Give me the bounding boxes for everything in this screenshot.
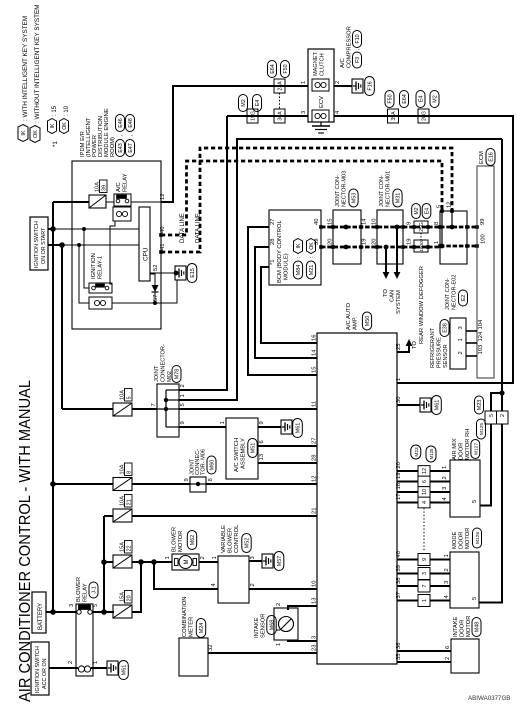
connector 36A (E64/F50) bbox=[274, 109, 285, 123]
case ground (compressor) bbox=[312, 122, 330, 133]
svg-text:6: 6 bbox=[259, 440, 265, 443]
svg-text:35: 35 bbox=[396, 654, 402, 660]
wire: fuse 39 to A/C relay contact bbox=[106, 201, 114, 203]
svg-text:40: 40 bbox=[314, 219, 320, 225]
wire: intake sensor pin 2 to amp pin 13 bbox=[288, 606, 317, 610]
wire: A/C relay coil to ignition relay contact bbox=[110, 221, 115, 284]
connector 19G (M2/E4) bbox=[239, 95, 262, 124]
svg-text:16: 16 bbox=[312, 335, 318, 341]
svg-text:: WITH INTELLIGENT KEY SYSTEM: : WITH INTELLIGENT KEY SYSTEM bbox=[22, 16, 29, 121]
svg-text:12: 12 bbox=[422, 468, 428, 474]
svg-text:PRESSURE: PRESSURE bbox=[437, 337, 443, 368]
wire: ign2 to relay-1 coil and CPU bbox=[62, 243, 139, 303]
svg-text:CPU: CPU bbox=[143, 247, 150, 261]
wire: common to connector cell 2 bbox=[501, 393, 503, 411]
svg-text:3: 3 bbox=[442, 487, 448, 490]
connector 100G bbox=[414, 240, 428, 252]
legend note *1: IK=15 OK=10 bbox=[48, 105, 71, 147]
junction ign2 bbox=[59, 242, 65, 248]
label DATA LINE 1 bbox=[180, 213, 186, 243]
svg-text:27: 27 bbox=[270, 219, 276, 225]
wire: amp pin 25 to rear window defogger bbox=[397, 339, 412, 352]
wire: fused bus px104 bbox=[103, 516, 105, 612]
svg-text:M53: M53 bbox=[352, 193, 358, 204]
svg-text:MODE: MODE bbox=[452, 531, 458, 549]
wire: ign2 vertical px62 to fuse 5 bbox=[62, 245, 113, 409]
svg-text:M24: M24 bbox=[199, 623, 205, 634]
svg-text:CAN: CAN bbox=[390, 290, 396, 302]
legend: OK = without intelligent key system bbox=[30, 4, 41, 142]
junction battery bus / relay line bbox=[50, 609, 56, 615]
svg-text:30: 30 bbox=[396, 397, 402, 403]
svg-text:2: 2 bbox=[180, 384, 186, 387]
wire: sensor pin 3 to ECM 104 bbox=[466, 330, 477, 332]
wire: amp 35 to intake 2 bbox=[397, 661, 451, 663]
IPDM pin numbers bbox=[153, 194, 166, 301]
refrigerant pressure sensor E38 bbox=[430, 318, 466, 369]
wire: CAN data line from IPDM pin 40 bbox=[161, 161, 442, 235]
svg-text:NECTOR-M01: NECTOR-M01 bbox=[386, 171, 392, 207]
svg-text:COMBINATION: COMBINATION bbox=[182, 597, 188, 637]
svg-text:2: 2 bbox=[442, 476, 448, 479]
svg-text:9: 9 bbox=[180, 421, 186, 424]
svg-text:36: 36 bbox=[396, 643, 402, 649]
svg-text:19G: 19G bbox=[251, 111, 257, 121]
combination meter M24 bbox=[179, 597, 214, 676]
svg-text:23: 23 bbox=[312, 645, 318, 651]
wire: ignition ON/START feed 1 to bus bbox=[48, 228, 53, 230]
wire: CAN data line from IPDM pin 41 bbox=[161, 148, 452, 252]
svg-text:M48: M48 bbox=[475, 622, 481, 633]
svg-text:100G: 100G bbox=[419, 240, 424, 252]
svg-text:A/C: A/C bbox=[116, 182, 122, 192]
wire: CAN branch arrows to CAN system bbox=[383, 227, 401, 279]
svg-text:103: 103 bbox=[478, 345, 484, 355]
svg-text:F50: F50 bbox=[388, 94, 394, 103]
svg-text:3: 3 bbox=[301, 111, 307, 114]
wire: intake sensor pin 1 to amp pin 3 bbox=[288, 640, 317, 641]
ground E15 bbox=[161, 264, 197, 304]
wire: M78 pin 9 to A/C switch pin 1 bbox=[179, 426, 226, 428]
svg-text:9: 9 bbox=[407, 222, 413, 225]
svg-text:E47: E47 bbox=[128, 143, 134, 153]
svg-text:M61: M61 bbox=[122, 665, 128, 676]
svg-text:20: 20 bbox=[396, 462, 402, 468]
svg-text:6: 6 bbox=[422, 480, 428, 483]
svg-text:M57: M57 bbox=[277, 556, 283, 567]
svg-text:6: 6 bbox=[445, 646, 451, 649]
wire: A/C switch pin 6 to amp pin 27 bbox=[258, 445, 317, 447]
svg-text:99: 99 bbox=[480, 219, 486, 225]
junction px104/fuse22 bbox=[101, 559, 107, 565]
svg-text:IGNITION SWITCH: IGNITION SWITCH bbox=[34, 221, 40, 268]
CPU box bbox=[139, 207, 150, 281]
diode (IPDM) bbox=[150, 274, 159, 303]
svg-text:VARIABLE: VARIABLE bbox=[221, 525, 227, 553]
joint connector M01 (M31) bbox=[372, 171, 413, 264]
svg-text:100: 100 bbox=[481, 234, 487, 244]
wire: amp pin 30 to ground bbox=[397, 404, 420, 406]
junction bus/fuse8 bbox=[50, 481, 56, 487]
svg-text:2: 2 bbox=[500, 414, 506, 417]
svg-text:E15: E15 bbox=[190, 268, 196, 278]
svg-text:CLUTCH: CLUTCH bbox=[320, 53, 326, 76]
svg-text:36A: 36A bbox=[278, 111, 284, 121]
svg-text:1: 1 bbox=[301, 81, 307, 84]
svg-text:5: 5 bbox=[472, 500, 478, 503]
junction ign1 on bus bbox=[50, 226, 56, 232]
svg-text:M126: M126 bbox=[475, 532, 481, 544]
svg-text:M50: M50 bbox=[365, 316, 371, 327]
legend: IK = with intelligent key system bbox=[18, 16, 29, 142]
wire: bus top to IPDM fuse 39 bbox=[53, 201, 89, 203]
svg-text:SYSTEM: SYSTEM bbox=[396, 290, 402, 314]
svg-text:40: 40 bbox=[160, 227, 166, 233]
svg-text:5: 5 bbox=[472, 597, 478, 600]
connector link dotted 23A-36A bbox=[279, 93, 281, 109]
svg-text:TO: TO bbox=[412, 341, 418, 349]
svg-text:1: 1 bbox=[458, 338, 464, 341]
svg-text:3: 3 bbox=[444, 581, 450, 584]
svg-text:5: 5 bbox=[126, 396, 132, 399]
svg-text:INTAKE: INTAKE bbox=[453, 616, 459, 637]
wire: battery bus vertical px53 bbox=[52, 202, 54, 612]
svg-text:ECV: ECV bbox=[319, 96, 325, 108]
svg-text:124: 124 bbox=[478, 331, 484, 341]
svg-text:12: 12 bbox=[447, 202, 453, 208]
svg-text:1: 1 bbox=[444, 554, 450, 557]
ignition relay-1 bbox=[89, 253, 112, 309]
mode door motor M126 bbox=[444, 528, 482, 608]
wire: ign1 to relay-1 contact and CPU bbox=[53, 227, 139, 288]
svg-text:1: 1 bbox=[276, 643, 282, 646]
svg-text:2: 2 bbox=[458, 351, 464, 354]
svg-text:INTAKE: INTAKE bbox=[254, 617, 260, 638]
svg-text:E16: E16 bbox=[489, 152, 495, 162]
svg-text:M62: M62 bbox=[190, 535, 196, 546]
svg-text:39: 39 bbox=[102, 185, 108, 191]
wire: relay-1 coil to pin 57 node bbox=[112, 302, 161, 304]
connector link dotted cells bbox=[423, 508, 425, 552]
svg-text:ON OR START: ON OR START bbox=[41, 227, 47, 264]
ignition switch ACC or ON bbox=[31, 642, 49, 695]
wire: amp 18 to air mix 3 bbox=[397, 491, 450, 493]
svg-text:SENSOR: SENSOR bbox=[443, 344, 449, 368]
title: AIR CONDITIONER CONTROL - WITH MANUAL bbox=[17, 380, 34, 702]
svg-text:15: 15 bbox=[312, 367, 318, 373]
air mix door motor RH M127 bbox=[442, 429, 480, 517]
wire: cell 2 to mode door motor pin 5 bbox=[479, 424, 502, 603]
wire: door motor feed drop px502 bbox=[501, 139, 503, 393]
svg-text:8: 8 bbox=[434, 222, 440, 225]
variable blower control M52 bbox=[211, 524, 256, 603]
svg-text:BLOWER: BLOWER bbox=[172, 527, 178, 552]
wire: fuse 21 to amp pin 21 bbox=[132, 515, 317, 517]
svg-text:M60: M60 bbox=[210, 460, 216, 471]
svg-text:3: 3 bbox=[422, 572, 428, 575]
svg-text:8: 8 bbox=[126, 471, 132, 474]
wire: blower relay out to fuse 20 bbox=[93, 611, 114, 613]
svg-text:5: 5 bbox=[180, 403, 186, 406]
junction fuse20 riser bbox=[138, 559, 144, 565]
label TO REAR WINDOW DEFOGGER bbox=[412, 266, 425, 349]
wire: fuse 22 to blower motor bbox=[132, 561, 172, 563]
svg-text:NECTOR-M03: NECTOR-M03 bbox=[342, 171, 348, 207]
svg-text:25G: 25G bbox=[419, 222, 425, 232]
connector cells M23/M125 (air mix) bbox=[411, 445, 436, 508]
svg-text:DATA LINE: DATA LINE bbox=[196, 213, 202, 243]
svg-text:39: 39 bbox=[396, 565, 402, 571]
svg-text:1: 1 bbox=[422, 599, 428, 602]
svg-text:MOTOR: MOTOR bbox=[465, 528, 471, 549]
svg-text:5: 5 bbox=[437, 205, 443, 208]
svg-text:RELAY: RELAY bbox=[123, 173, 129, 192]
svg-text:M61: M61 bbox=[435, 400, 441, 411]
connector cells (mode) bbox=[418, 554, 430, 607]
svg-text:1: 1 bbox=[442, 466, 448, 469]
wire: CAN BCM 39 to E02 pin 1 bbox=[321, 246, 440, 249]
terminal nubs on CAN chain bbox=[159, 209, 479, 254]
svg-text:METER: METER bbox=[189, 617, 195, 637]
svg-text:JOINT CON-: JOINT CON- bbox=[445, 278, 451, 310]
svg-text:35A: 35A bbox=[391, 111, 397, 121]
svg-text:1: 1 bbox=[434, 241, 440, 244]
svg-text:7: 7 bbox=[151, 403, 157, 406]
wire: amp 39 to mode 2 bbox=[397, 573, 450, 575]
svg-text:M127: M127 bbox=[473, 443, 479, 455]
svg-text:2: 2 bbox=[250, 583, 256, 586]
wire: CAN BCM 40 to E02 pin 8 bbox=[321, 226, 440, 229]
ground M57 bbox=[262, 552, 284, 571]
svg-text:28: 28 bbox=[270, 239, 276, 245]
svg-text:22: 22 bbox=[126, 545, 132, 551]
svg-text:E64: E64 bbox=[270, 64, 276, 74]
svg-text:E46: E46 bbox=[118, 118, 124, 128]
svg-text:18: 18 bbox=[396, 483, 402, 489]
svg-text:E4: E4 bbox=[425, 208, 431, 214]
junction door motor common bbox=[499, 390, 504, 395]
svg-text:F50: F50 bbox=[283, 64, 289, 73]
svg-text:M84: M84 bbox=[296, 265, 302, 276]
svg-text:1: 1 bbox=[93, 661, 99, 664]
svg-text:A/C SWITCH: A/C SWITCH bbox=[234, 438, 240, 472]
svg-text:IK: IK bbox=[50, 123, 56, 128]
svg-text:9: 9 bbox=[259, 421, 265, 424]
intake door motor M48 bbox=[445, 616, 481, 673]
connector 35A (F50/E64) bbox=[385, 91, 409, 124]
svg-text:20: 20 bbox=[126, 595, 132, 601]
wire: amp 20 to air mix 1 bbox=[397, 470, 450, 472]
wire: fuse 5 to M78 pin 7 bbox=[132, 408, 157, 410]
svg-text:2: 2 bbox=[200, 556, 206, 559]
svg-text:E64: E64 bbox=[402, 94, 408, 104]
svg-text:: 15: : 15 bbox=[52, 105, 58, 116]
svg-text:41: 41 bbox=[160, 244, 166, 250]
A/C relay bbox=[113, 173, 131, 221]
svg-text:38: 38 bbox=[396, 578, 402, 584]
svg-text:RELAY: RELAY bbox=[83, 583, 89, 602]
svg-text:: WITHOUT INTELLIGENT KEY SYST: : WITHOUT INTELLIGENT KEY SYSTEM bbox=[34, 4, 41, 123]
intake sensor M68 bbox=[254, 603, 298, 646]
wire: amp 40 to mode 1 bbox=[397, 559, 450, 561]
svg-text:104: 104 bbox=[478, 319, 484, 329]
joint connector M06 (M60) bbox=[184, 449, 216, 492]
svg-text:M23: M23 bbox=[414, 447, 420, 457]
svg-text:F10: F10 bbox=[355, 34, 361, 43]
svg-text:M2: M2 bbox=[433, 95, 439, 103]
svg-text:MOTOR: MOTOR bbox=[466, 616, 472, 637]
svg-text:E4: E4 bbox=[255, 100, 261, 107]
wire: ignition ON/START feed 2 bbox=[48, 244, 62, 246]
svg-text:M125: M125 bbox=[479, 423, 485, 435]
wire: bus to fuse 8 bbox=[53, 483, 113, 485]
wire: ACC to blower relay coil bbox=[49, 667, 78, 669]
wire: VBC pin 3 to ground M57 bbox=[249, 560, 262, 562]
svg-text:M51: M51 bbox=[251, 443, 257, 454]
wire: IPDM pin 12 to magnet clutch pin 1 bbox=[161, 86, 308, 202]
A/C switch assembly M51 bbox=[220, 418, 265, 479]
joint connector M03 (M53) bbox=[328, 171, 368, 264]
joint connector M02 (M78) bbox=[151, 344, 186, 437]
svg-text:2: 2 bbox=[276, 603, 282, 606]
connector link dotted 25G-100G bbox=[420, 233, 422, 240]
svg-text:57: 57 bbox=[153, 295, 159, 301]
svg-text:19: 19 bbox=[362, 239, 368, 245]
svg-text:COMPRESSOR: COMPRESSOR bbox=[347, 26, 353, 68]
svg-text:TOR- M06: TOR- M06 bbox=[201, 449, 207, 475]
wire: A/C switch pin 9 to ground bbox=[258, 426, 281, 428]
svg-text:OK: OK bbox=[62, 122, 68, 130]
svg-text:11: 11 bbox=[312, 401, 318, 407]
svg-text:ABIWA0377GB: ABIWA0377GB bbox=[468, 695, 510, 702]
svg-text:25: 25 bbox=[396, 344, 402, 350]
wire: sensor pin 2 to ECM 103 bbox=[466, 355, 477, 357]
svg-text:M31: M31 bbox=[396, 193, 402, 204]
wire: magnet clutch pin 2 to F16 bbox=[334, 85, 352, 87]
blower relay J-1 bbox=[68, 577, 99, 676]
wire: common to connector cell 5 bbox=[491, 393, 502, 411]
wire: BCM pin 28 to amp pin 14 bbox=[255, 247, 317, 358]
svg-text:IK: IK bbox=[21, 130, 27, 136]
wire: amp 37 to mode 4 bbox=[397, 600, 450, 602]
svg-text:REFRIGERANT: REFRIGERANT bbox=[430, 327, 436, 368]
svg-text:ACC OR ON: ACC OR ON bbox=[42, 658, 48, 689]
svg-text:23A: 23A bbox=[278, 81, 284, 91]
svg-text:M2: M2 bbox=[241, 99, 247, 107]
svg-text:DATA LINE: DATA LINE bbox=[180, 213, 186, 243]
wire: amp 19 to air mix 2 bbox=[397, 481, 450, 483]
svg-text:2: 2 bbox=[444, 568, 450, 571]
connector 20G (E4/M2) bbox=[416, 91, 439, 124]
fuse 10A 5 bbox=[113, 389, 132, 417]
wire: riser px227 to ECV pin 3 bbox=[227, 115, 308, 117]
svg-text:IGNITION SWITCH: IGNITION SWITCH bbox=[35, 646, 41, 693]
wire: A/C switch pin 13 to amp pin 28 bbox=[258, 462, 317, 464]
fuse 10A 39 (IPDM) bbox=[89, 180, 108, 208]
wire: ECV pin 4 to amp pin 1 bbox=[334, 116, 513, 383]
svg-text:J-1: J-1 bbox=[92, 586, 98, 594]
svg-text:TO: TO bbox=[383, 289, 389, 297]
svg-text:2: 2 bbox=[335, 81, 341, 84]
wire: VBC pin 2 to amp pin 10 bbox=[249, 588, 317, 590]
wire: relay coil to ground M61 bbox=[91, 667, 107, 669]
svg-text:DOOR: DOOR bbox=[459, 532, 465, 549]
fuse 15A 22 bbox=[113, 541, 132, 569]
ground F16 bbox=[352, 77, 374, 96]
svg-text:3: 3 bbox=[69, 604, 75, 607]
ground M61 (A/C switch) bbox=[281, 419, 302, 438]
svg-text:14: 14 bbox=[312, 349, 318, 356]
svg-text:SENSOR: SENSOR bbox=[261, 614, 267, 638]
svg-text:CONTROL: CONTROL bbox=[234, 524, 240, 553]
svg-text:19: 19 bbox=[396, 473, 402, 479]
svg-text:3: 3 bbox=[250, 556, 256, 559]
svg-text:JOINT CON-: JOINT CON- bbox=[379, 175, 385, 207]
wire: amp 36 to intake 6 bbox=[397, 650, 451, 652]
wire: px104 to fuse 22 bbox=[104, 561, 113, 563]
wire: CPU ground to IPDM pin 52 bbox=[150, 272, 176, 274]
svg-text:DOOR: DOOR bbox=[459, 443, 465, 460]
A/C auto amp M50 bbox=[317, 303, 397, 664]
svg-text:5: 5 bbox=[93, 604, 99, 607]
svg-text:RELAY-1: RELAY-1 bbox=[98, 256, 104, 279]
svg-text:E43: E43 bbox=[118, 143, 124, 153]
svg-text:ECM: ECM bbox=[479, 151, 485, 164]
svg-text:A/C AUTO: A/C AUTO bbox=[346, 303, 352, 330]
junction relay out bbox=[101, 609, 107, 615]
svg-text:IGNITION: IGNITION bbox=[91, 253, 97, 279]
A/C compressor F3/F10 bbox=[301, 26, 362, 122]
svg-text:20G: 20G bbox=[422, 111, 428, 121]
svg-text:32: 32 bbox=[208, 645, 214, 651]
svg-text:BLOWER: BLOWER bbox=[76, 577, 82, 602]
svg-text:21: 21 bbox=[126, 499, 132, 505]
wire: fuse 8 to joint connector M06 bbox=[132, 483, 190, 485]
wire: sensor pin 1 to ECM 124 bbox=[466, 342, 477, 344]
junction VBC riser bbox=[151, 559, 157, 565]
svg-text:13: 13 bbox=[312, 598, 318, 604]
svg-text:M68: M68 bbox=[270, 620, 276, 631]
ground M61 (amp) bbox=[420, 396, 441, 415]
svg-text:E4: E4 bbox=[419, 96, 425, 103]
svg-text:F16: F16 bbox=[368, 81, 374, 90]
wire: A/C relay contact to IPDM pin 12 bbox=[131, 201, 161, 203]
wire: px104 to fuse 21 bbox=[104, 515, 113, 517]
wire: BCM pin 27 to amp pin 15 bbox=[248, 227, 317, 375]
svg-text:M23: M23 bbox=[477, 400, 483, 411]
svg-text:1: 1 bbox=[220, 421, 226, 424]
svg-text:CONNECTOR-: CONNECTOR- bbox=[161, 344, 167, 382]
svg-text:M: M bbox=[184, 560, 190, 565]
svg-text:2: 2 bbox=[68, 661, 74, 664]
svg-text:12: 12 bbox=[312, 476, 318, 482]
wire: BCM pin *1 to amp pin 16 bbox=[261, 267, 317, 343]
svg-text:M125: M125 bbox=[429, 448, 434, 460]
svg-text:12: 12 bbox=[160, 194, 166, 200]
fuse 10A 8 bbox=[113, 463, 132, 491]
svg-text:AIR MIX: AIR MIX bbox=[452, 438, 458, 460]
svg-text:NECTOR-E02: NECTOR-E02 bbox=[452, 275, 458, 310]
svg-text:F3: F3 bbox=[355, 57, 361, 63]
svg-text:1: 1 bbox=[180, 394, 186, 397]
label DATA LINE 2 bbox=[196, 213, 202, 243]
svg-text:M2: M2 bbox=[414, 207, 420, 214]
inline connector M23/M125 (5/2) bbox=[475, 396, 509, 439]
svg-text:15: 15 bbox=[328, 219, 334, 225]
svg-text:14: 14 bbox=[362, 218, 368, 225]
svg-text:10: 10 bbox=[312, 581, 318, 587]
svg-text:10: 10 bbox=[372, 219, 378, 225]
